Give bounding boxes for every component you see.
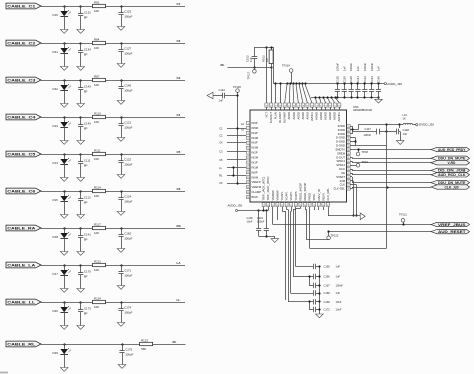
cable input connector tag CABLE_C3: [6, 77, 41, 83]
svg-text:10K: 10K: [94, 231, 99, 235]
svg-text:100pF: 100pF: [125, 353, 133, 357]
wire cap gnd rail: [259, 235, 275, 238]
cable input connector tag CABLE_RL: [6, 341, 41, 347]
svg-text:DALV_IN: DALV_IN: [317, 189, 321, 200]
svg-text:10K: 10K: [94, 9, 99, 13]
svg-text:AGND: AGND: [315, 112, 319, 120]
ground: [375, 97, 383, 103]
ground: [316, 314, 324, 318]
svg-text:8P: 8P: [84, 238, 88, 242]
svg-text:C141: C141: [84, 233, 91, 237]
resistor R81 10K: [93, 0, 106, 12]
svg-text:KLDOUT: KLDOUT: [269, 112, 273, 123]
svg-text:D-GND: D-GND: [336, 144, 345, 148]
svg-text:AVDD: AVDD: [296, 112, 300, 119]
capacitor C146 1nF: [376, 66, 381, 99]
capacitor C110 100nF: [257, 211, 269, 237]
svg-text:8P: 8P: [84, 275, 88, 279]
test point TP122: [305, 207, 339, 240]
wire clock feed: [328, 207, 360, 216]
capacitor C102 1nF: [245, 47, 257, 67]
capacitor C168 1nF: [291, 290, 341, 295]
resistor R111 10K: [93, 148, 106, 160]
svg-text:REED_MIC0P: REED_MIC0P: [298, 183, 302, 201]
svg-text:VREFP: VREFP: [252, 180, 261, 184]
cable input connector tag CABLE_C2: [6, 40, 41, 46]
wire stub net C2 to IC pin: [219, 133, 246, 137]
svg-text:10K: 10K: [94, 46, 99, 50]
wire R102 to pin: [271, 67, 273, 103]
svg-text:C136: C136: [247, 216, 254, 220]
svg-text:YCXP5: YCXP5: [294, 191, 298, 200]
capacitor C144 1nF: [213, 88, 238, 103]
wire 3VDD tie: [350, 126, 376, 134]
svg-text:C111: C111: [84, 159, 91, 163]
svg-text:100pF: 100pF: [124, 52, 132, 56]
svg-text:DVDD_J30: DVDD_J30: [419, 123, 434, 127]
svg-text:CLK_GBL: CLK_GBL: [326, 188, 330, 201]
wire VREF_JBUS net: [273, 207, 432, 225]
svg-text:1nF: 1nF: [336, 291, 341, 295]
svg-text:R110: R110: [94, 111, 101, 115]
cable input connector tag CABLE_C1: [6, 3, 41, 9]
svg-text:CLAMP: CLAMP: [252, 190, 262, 194]
wire ICLK to tag: [350, 169, 431, 171]
svg-text:IN0P: IN0P: [252, 170, 258, 174]
test point TP18: [356, 148, 368, 155]
svg-text:C141: C141: [356, 76, 360, 83]
wire RL net: [228, 66, 273, 68]
svg-text:10K: 10K: [94, 157, 99, 161]
svg-text:SMDTV: SMDTV: [335, 148, 345, 152]
svg-text:C121: C121: [124, 121, 131, 125]
svg-text:AVDD: AVDD: [305, 112, 309, 119]
svg-text:R87: R87: [94, 74, 100, 78]
svg-text:C6: C6: [177, 187, 181, 191]
svg-text:AVDD1: AVDD1: [310, 112, 314, 121]
capacitor C120 100nF: [335, 63, 340, 99]
svg-text:D42: D42: [53, 87, 59, 91]
svg-text:100nF: 100nF: [257, 220, 265, 224]
svg-text:C2: C2: [219, 133, 223, 137]
node DVDD_J30: [416, 123, 435, 127]
svg-text:8P: 8P: [84, 201, 88, 205]
svg-text:AGND: AGND: [319, 112, 323, 120]
svg-text:C124: C124: [124, 195, 131, 199]
svg-text:8P: 8P: [84, 164, 88, 168]
ground: [77, 141, 85, 145]
svg-text:IN1P: IN1P: [252, 161, 258, 165]
diode D15 (TVS to ground): [53, 190, 71, 214]
capacitor C132 8P: [78, 5, 91, 29]
svg-text:C162: C162: [124, 232, 131, 236]
resistor R121 10K: [93, 259, 106, 271]
svg-text:10K: 10K: [94, 120, 99, 124]
svg-text:IN1M: IN1M: [252, 165, 259, 169]
ground: [117, 249, 125, 253]
net tag DDU_DN_MUTE / CLK_J30: [431, 180, 470, 189]
wire AGND bus: [311, 96, 379, 103]
diode D16 (TVS to ground): [53, 5, 71, 29]
svg-text:CLK: CLK: [340, 183, 346, 187]
svg-text:D14: D14: [53, 161, 59, 165]
svg-text:R111: R111: [94, 148, 101, 152]
svg-text:RL: RL: [173, 340, 177, 344]
svg-text:REIV1: REIV1: [321, 192, 325, 200]
resistor R102 1M: [261, 47, 273, 67]
capacitor C167 100nF: [308, 275, 343, 288]
svg-text:D20: D20: [53, 309, 59, 313]
svg-text:C175: C175: [125, 348, 132, 352]
svg-text:56K: 56K: [141, 347, 146, 351]
buffer arrow: [360, 213, 365, 220]
svg-text:D41: D41: [53, 50, 59, 54]
ground: [77, 30, 85, 34]
svg-text:IN4P: IN4P: [252, 131, 258, 135]
svg-text:C4: C4: [177, 113, 181, 117]
ground: [60, 178, 68, 182]
capacitor C134 8P: [78, 42, 91, 66]
svg-text:V-RD: V-RD: [448, 161, 456, 165]
capacitor C139 1nF: [342, 66, 347, 99]
svg-text:YCAP1: YCAP1: [280, 191, 284, 200]
capacitor C172 10nF: [308, 300, 341, 312]
svg-text:VCAP1: VCAP1: [289, 191, 293, 200]
capacitor C147 100nF: [364, 127, 388, 137]
ground: [77, 104, 85, 108]
svg-text:CABLE_RL: CABLE_RL: [7, 343, 36, 347]
ground: [117, 323, 125, 327]
svg-text:SREM: SREM: [337, 151, 346, 155]
diode D13 (TVS to ground): [53, 116, 71, 140]
svg-text:100nF: 100nF: [363, 63, 367, 71]
capacitor C143 8P: [78, 79, 91, 103]
svg-text:D-OUT: D-OUT: [336, 155, 345, 159]
ground: [77, 252, 85, 256]
svg-text:3VDD: 3VDD: [338, 128, 345, 132]
wire cap chain feed 2: [287, 207, 289, 302]
svg-text:AGND1: AGND1: [337, 112, 341, 122]
svg-text:AVDD_J30: AVDD_J30: [387, 82, 402, 86]
svg-text:SPD1: SPD1: [312, 193, 316, 201]
svg-text:1nF: 1nF: [219, 99, 224, 103]
ground: [271, 239, 279, 243]
svg-text:10K: 10K: [94, 268, 99, 272]
svg-text:R117: R117: [94, 222, 101, 226]
svg-text:TP117: TP117: [247, 71, 251, 79]
svg-text:RL: RL: [219, 174, 223, 178]
svg-text:C172: C172: [324, 307, 331, 311]
ground: [60, 289, 68, 293]
svg-text:C4: C4: [219, 141, 223, 145]
svg-text:C146: C146: [377, 76, 381, 83]
wire jog between stubs: [232, 166, 234, 176]
svg-text:1nF: 1nF: [336, 264, 341, 268]
test point TP121: [399, 212, 407, 225]
wire D-OUT to tag: [350, 157, 431, 158]
svg-text:C143: C143: [370, 76, 374, 83]
svg-text:100pF: 100pF: [124, 89, 132, 93]
ground: [118, 365, 126, 369]
diode D42 (TVS to ground): [53, 79, 71, 103]
capacitor C166 1nF: [293, 274, 340, 279]
cable input connector tag CABLE_C6: [6, 188, 41, 194]
svg-text:YCAP1: YCAP1: [285, 191, 289, 200]
test point TP118: [233, 85, 241, 96]
ground: [396, 141, 404, 145]
svg-text:ICLK: ICLK: [339, 167, 345, 171]
svg-text:100nF: 100nF: [370, 63, 374, 71]
wire chain gnd rail: [318, 265, 320, 314]
svg-text:SPD11: SPD11: [336, 159, 345, 163]
off-page arrow: [207, 92, 213, 98]
ground: [60, 252, 68, 256]
svg-text:RL: RL: [221, 63, 225, 67]
cable input connector tag CABLE_LL: [6, 299, 41, 305]
wire AVDD pin stubs: [257, 207, 268, 212]
wire wrap loop: [310, 125, 387, 249]
net tag AUD_RCD_PRDY: [431, 147, 470, 152]
cable input connector tag CABLE_C4: [6, 114, 41, 120]
svg-text:C166: C166: [324, 275, 331, 279]
capacitor C175 100pF: [119, 343, 133, 364]
svg-text:C123: C123: [124, 10, 131, 14]
wire VCT pin up: [266, 47, 268, 103]
capacitor C148 1nF: [387, 125, 410, 141]
svg-text:VNABW: VNABW: [275, 190, 279, 200]
capacitor C169 10nF: [288, 299, 342, 304]
svg-text:VREF_JBUS: VREF_JBUS: [438, 223, 467, 227]
svg-text:C143: C143: [84, 85, 91, 89]
resistor R123 56K: [140, 338, 153, 350]
svg-text:IN2P: IN2P: [252, 151, 258, 155]
svg-text:1nF: 1nF: [336, 275, 341, 279]
svg-text:R121: R121: [94, 259, 101, 263]
svg-text:100pF: 100pF: [124, 163, 132, 167]
svg-text:D15: D15: [53, 198, 59, 202]
svg-text:IN3P: IN3P: [252, 141, 258, 145]
svg-text:D16: D16: [53, 13, 59, 17]
svg-text:C146: C146: [124, 84, 131, 88]
resistor R114 10K: [93, 185, 106, 197]
wire stub net RL to IC pin: [219, 174, 246, 178]
svg-text:IN2M: IN2M: [252, 156, 259, 160]
capacitor C136 10nF: [247, 211, 262, 237]
svg-text:100pF: 100pF: [124, 126, 132, 130]
svg-text:C110: C110: [257, 216, 264, 220]
svg-text:CABLE_LA: CABLE_LA: [7, 264, 35, 268]
svg-text:REED_WIC0P: REED_WIC0P: [303, 182, 307, 200]
wire C5 row: [41, 154, 185, 156]
svg-text:R123: R123: [141, 338, 148, 342]
svg-text:TP118: TP118: [233, 85, 241, 89]
wire START to tag: [350, 177, 431, 183]
capacitor C121 100pF: [118, 116, 132, 137]
svg-text:BIAS: BIAS: [252, 195, 258, 199]
svg-text:C167: C167: [324, 283, 331, 287]
svg-text:8P: 8P: [84, 127, 88, 131]
diode D20 (TVS to ground): [53, 301, 71, 325]
cable input connector tag CABLE_LA: [6, 262, 41, 268]
svg-text:100nF: 100nF: [349, 63, 353, 71]
resistor R110 10K: [93, 111, 106, 123]
svg-text:24M: 24M: [340, 179, 346, 183]
svg-text:CABLE_C2: CABLE_C2: [7, 42, 35, 46]
resistor R84 10K: [93, 37, 106, 49]
wire C4 row: [41, 117, 185, 119]
capacitor C162 100pF: [118, 227, 132, 248]
svg-text:C1: C1: [219, 127, 223, 131]
svg-text:TRIP_JACK_(NTC): TRIP_JACK_(NTC): [262, 177, 266, 201]
ground: [60, 30, 68, 34]
svg-text:1nF: 1nF: [342, 66, 346, 71]
capacitor C127 100pF: [118, 42, 132, 63]
IC U50 pin boxes and names: [246, 103, 350, 207]
node AVDD_J30: [383, 82, 403, 86]
net tag VREF_JBUS: [431, 222, 470, 227]
svg-text:10K: 10K: [94, 194, 99, 198]
svg-text:D17: D17: [53, 272, 59, 276]
wire top rail: [254, 46, 273, 48]
svg-text:C140: C140: [84, 122, 91, 126]
svg-text:CABLE_LL: CABLE_LL: [7, 301, 36, 305]
svg-text:C148: C148: [403, 128, 410, 132]
svg-text:IN4M: IN4M: [252, 136, 259, 140]
svg-text:10K: 10K: [94, 305, 99, 309]
capacitor C142 100nF: [362, 63, 367, 99]
svg-text:C174: C174: [124, 306, 131, 310]
wire stub net C1 to IC pin: [219, 127, 246, 131]
ground: [60, 326, 68, 330]
diode D18 (TVS to ground): [53, 227, 71, 251]
IC lower-left rotated pin names: [252, 170, 262, 199]
capacitor C141 8P: [78, 227, 91, 251]
svg-text:100nF: 100nF: [336, 283, 344, 287]
ground: [117, 286, 125, 290]
ground: [60, 67, 68, 71]
svg-text:C147: C147: [365, 127, 372, 131]
wire D-GND tie: [350, 138, 386, 146]
svg-text:10nF: 10nF: [247, 220, 253, 224]
net tag DD_DN_JOB / AUD_RCD_CLK: [431, 168, 470, 177]
svg-text:C134: C134: [84, 48, 91, 52]
svg-text:8P: 8P: [84, 53, 88, 57]
svg-text:C120: C120: [336, 76, 340, 83]
wire C1 row: [41, 6, 185, 8]
svg-text:AUD_RESET: AUD_RESET: [438, 230, 466, 234]
cable input connector tag CABLE_RA: [6, 225, 41, 231]
svg-text:D-GND: D-GND: [336, 136, 345, 140]
svg-text:3VDD: 3VDD: [338, 124, 345, 128]
svg-text:100pF: 100pF: [124, 15, 132, 19]
wire C6 row: [41, 191, 185, 193]
svg-text:AD9288KZ100: AD9288KZ100: [353, 108, 372, 112]
wire SPD12 to tag line2: [350, 161, 431, 162]
svg-text:IN5M: IN5M: [252, 126, 259, 130]
diode D29 (TVS to ground): [53, 343, 71, 367]
diode D17 (TVS to ground): [53, 264, 71, 288]
capacitor C123 100pF: [118, 5, 132, 26]
capacitor C170 8P: [78, 264, 91, 288]
svg-text:100pF: 100pF: [124, 200, 132, 204]
svg-text:C169: C169: [324, 300, 331, 304]
svg-text:100nF: 100nF: [336, 63, 340, 71]
svg-text:IN3M: IN3M: [252, 146, 259, 150]
wire C3 row: [41, 80, 185, 82]
wire stub net C6 to IC pin: [219, 181, 246, 185]
svg-text:1nF: 1nF: [356, 66, 360, 71]
wire CE to tag line2: [350, 173, 431, 175]
diode D14 (TVS to ground): [53, 153, 71, 177]
ground: [117, 27, 125, 31]
svg-text:CABLE_C5: CABLE_C5: [7, 153, 35, 157]
ground: [117, 212, 125, 216]
svg-text:CABLE_C4: CABLE_C4: [7, 116, 36, 120]
svg-text:R114: R114: [94, 185, 101, 189]
capacitor C141 1nF: [355, 66, 360, 99]
wire 24M down: [350, 181, 354, 217]
capacitor C173 8P: [78, 301, 91, 325]
test point TP19: [350, 160, 368, 167]
capacitor C171 100pF: [118, 264, 132, 285]
svg-text:D18: D18: [53, 235, 59, 239]
svg-text:LL: LL: [177, 298, 181, 302]
node AVDD_J30 bottom: [228, 203, 269, 211]
svg-text:START: START: [336, 175, 345, 179]
wire AUD_RESET net: [329, 231, 431, 233]
svg-text:R84: R84: [94, 37, 100, 41]
svg-text:C139: C139: [342, 76, 346, 83]
ground: [77, 67, 85, 71]
svg-text:C2: C2: [177, 39, 181, 43]
wire cap chain feed 5: [296, 207, 301, 267]
ground: [77, 215, 85, 219]
svg-text:AGND: AGND: [328, 112, 332, 120]
wire C2 row: [41, 43, 185, 45]
svg-text:PLLW: PLLW: [274, 112, 278, 120]
wire RL row: [41, 344, 186, 346]
svg-text:IN0M: IN0M: [252, 175, 259, 179]
svg-text:L13: L13: [403, 113, 408, 117]
svg-text:AUD_RCD_PRDY: AUD_RCD_PRDY: [438, 148, 466, 152]
wire SREM to tag: [350, 149, 431, 151]
svg-text:CABLE_C3: CABLE_C3: [7, 79, 35, 83]
ground: [60, 104, 68, 108]
capacitor C146 100pF: [118, 79, 132, 100]
svg-text:C132: C132: [84, 11, 91, 15]
svg-text:CABLE_RA: CABLE_RA: [7, 227, 35, 231]
svg-text:TP119: TP119: [282, 64, 290, 68]
svg-text:AVDD: AVDD: [292, 112, 296, 119]
wire stub net C4 to IC pin: [219, 141, 246, 145]
wire stub net C5 to IC pin: [219, 158, 246, 162]
svg-text:C140: C140: [349, 76, 353, 83]
capacitor C124 100pF: [118, 190, 132, 211]
svg-text:1nF: 1nF: [249, 57, 253, 62]
ground: [77, 178, 85, 182]
ground: [60, 215, 68, 219]
svg-text:AVDD_J30: AVDD_J30: [228, 203, 243, 207]
capacitor C113 8P: [78, 190, 91, 214]
ground: [60, 368, 68, 372]
ground: [117, 175, 125, 179]
net tag AUD_RESET: [431, 229, 470, 234]
wire RA row: [41, 228, 185, 230]
svg-text:1nF: 1nF: [377, 66, 381, 71]
svg-text:RLFAMP: RLFAMP: [283, 112, 287, 123]
wire AVDD bus: [274, 82, 383, 103]
svg-text:TP121: TP121: [399, 212, 407, 216]
